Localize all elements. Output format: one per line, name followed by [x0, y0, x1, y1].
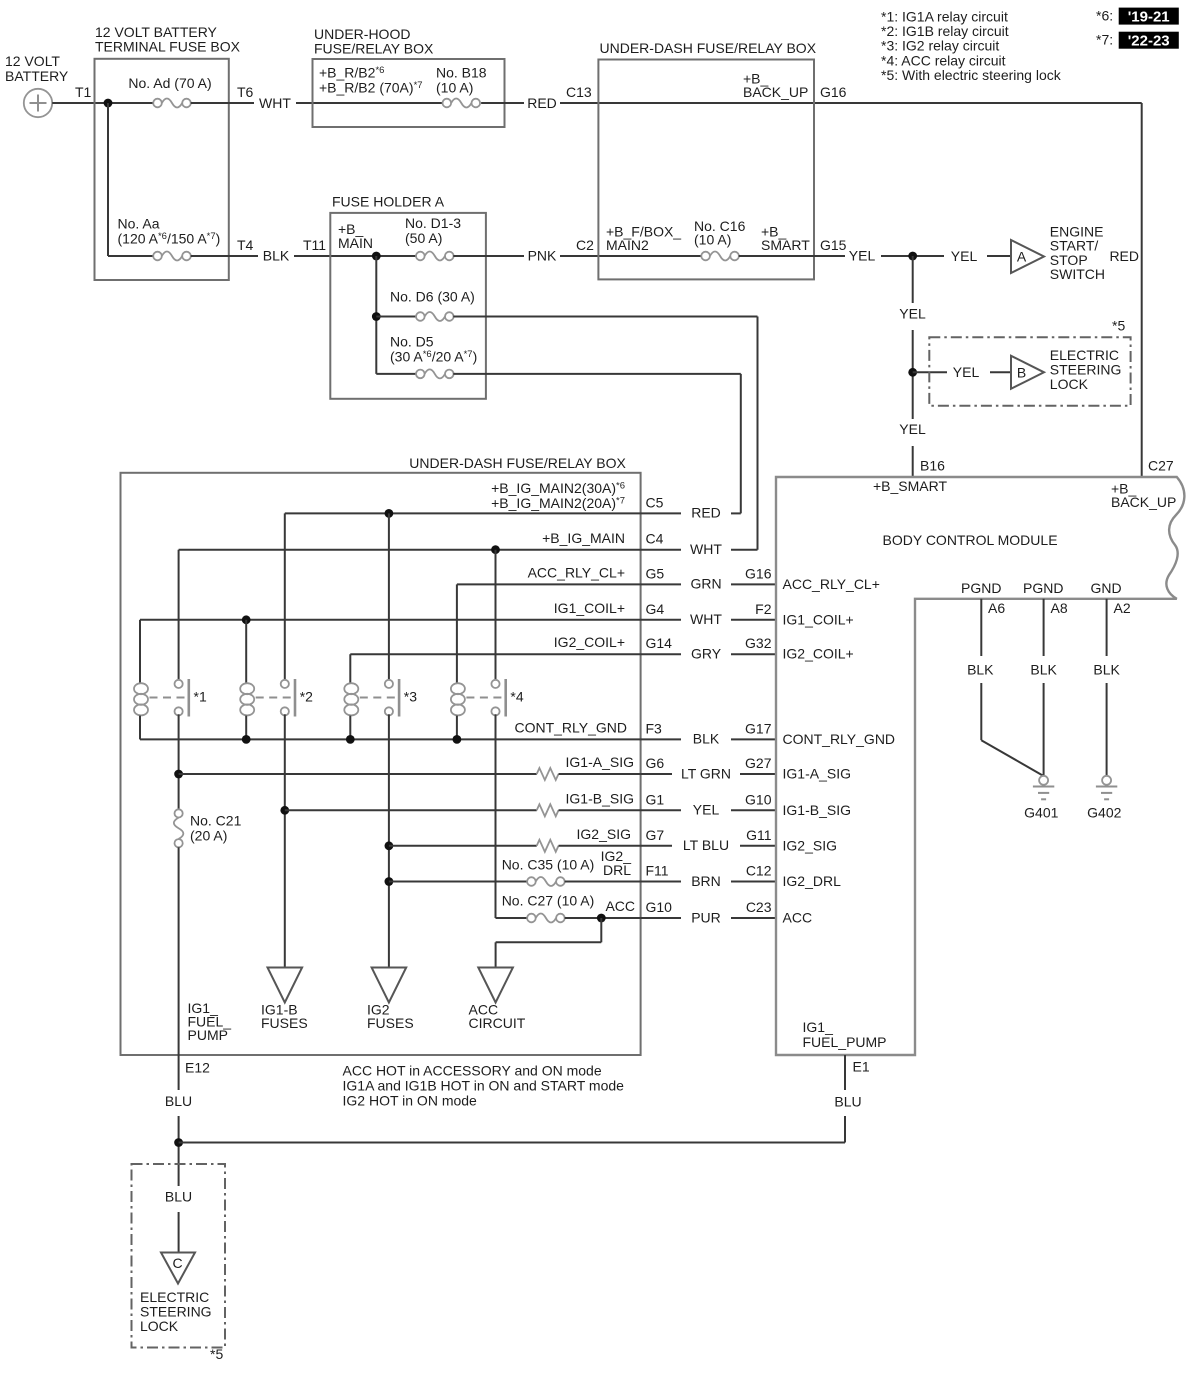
wire row G5 ACC_RLY_CL+ GRN — [457, 564, 880, 592]
svg-text:G401: G401 — [1024, 805, 1058, 821]
svg-text:ACC: ACC — [605, 898, 635, 914]
svg-text:T4: T4 — [237, 237, 254, 253]
svg-text:(20 A): (20 A) — [190, 828, 227, 844]
svg-text:GND: GND — [1091, 580, 1122, 596]
svg-text:CIRCUIT: CIRCUIT — [469, 1015, 526, 1031]
svg-text:G15: G15 — [820, 237, 847, 253]
svg-text:C4: C4 — [646, 531, 664, 547]
wire relay2 coil feed — [245, 620, 247, 683]
svg-text:YEL: YEL — [899, 306, 926, 322]
ground G401 — [1024, 776, 1058, 821]
svg-text:LOCK: LOCK — [1050, 376, 1089, 392]
junction C35 feed tap — [385, 877, 394, 886]
svg-text:No. C21: No. C21 — [190, 813, 242, 829]
svg-text:GRY: GRY — [691, 646, 722, 662]
junction +B_MAIN — [372, 252, 381, 261]
svg-text:BRN: BRN — [691, 873, 721, 889]
svg-text:BLU: BLU — [165, 1093, 192, 1109]
svg-text:G14: G14 — [646, 635, 673, 651]
svg-text:E12: E12 — [185, 1060, 210, 1076]
note *7 year tag — [1096, 32, 1179, 50]
svg-text:F11: F11 — [646, 863, 669, 879]
svg-text:SMART: SMART — [761, 237, 810, 253]
wire row G4 IG1_COIL+ WHT — [140, 600, 854, 628]
wire G15 YEL — [739, 247, 1011, 264]
pin A8 wire BLK — [1030, 599, 1067, 776]
svg-text:DRL: DRL — [603, 862, 631, 878]
junction D6 tap — [372, 312, 381, 321]
svg-text:BACK_UP: BACK_UP — [743, 84, 808, 100]
svg-text:A6: A6 — [988, 600, 1005, 616]
wire RED vertical — [1109, 103, 1141, 477]
junction C5 to relay 3 — [385, 509, 394, 518]
svg-text:C27: C27 — [1148, 458, 1174, 474]
svg-text:*3: *3 — [404, 689, 417, 705]
svg-text:(10 A): (10 A) — [694, 232, 731, 248]
svg-text:*1: *1 — [194, 689, 207, 705]
note *6 year tag — [1096, 8, 1179, 26]
svg-text:G1: G1 — [646, 791, 665, 807]
fuse No. C16 (10 A) — [694, 218, 746, 261]
svg-text:IG2_COIL+: IG2_COIL+ — [554, 634, 625, 650]
wire fuse holder vertical — [375, 256, 377, 374]
svg-text:BLU: BLU — [834, 1094, 861, 1110]
fuse No. Aa — [118, 216, 221, 261]
label IG1_FUEL_PUMP (box) — [188, 1000, 232, 1043]
svg-text:IG2_COIL+: IG2_COIL+ — [783, 646, 854, 662]
under-dash fuse/relay box (main) — [121, 455, 641, 1055]
junction steering lock branch — [908, 368, 917, 377]
wire T4 BLK — [191, 237, 416, 263]
label +B_SMART — [761, 224, 810, 254]
labels PGND PGND GND — [961, 580, 1122, 596]
svg-text:PNK: PNK — [528, 247, 557, 263]
wire relay3 contact feed — [388, 513, 390, 680]
svg-text:LT BLU: LT BLU — [683, 837, 729, 853]
svg-text:G10: G10 — [646, 899, 673, 915]
svg-text:C12: C12 — [746, 863, 772, 879]
wire relay1 contact output — [178, 714, 180, 809]
svg-text:G5: G5 — [646, 565, 665, 581]
wire row G7 IG2_SIG LT BLU — [389, 826, 837, 854]
wire battery down-branch — [108, 103, 153, 256]
svg-text:A: A — [1017, 249, 1027, 265]
svg-text:G10: G10 — [745, 791, 772, 807]
wire RED to C13 — [481, 84, 1142, 111]
svg-text:F3: F3 — [646, 720, 663, 736]
svg-text:IG2_SIG: IG2_SIG — [783, 837, 837, 853]
svg-text:'19-21: '19-21 — [1128, 8, 1170, 25]
svg-text:No. C27 (10 A): No. C27 (10 A) — [502, 893, 595, 909]
fuse No. D5 — [376, 334, 477, 379]
wire row C5 +B_IG_MAIN2 RED — [285, 480, 741, 521]
junction IG2_SIG tap — [385, 841, 394, 850]
svg-text:+B_R/B2*6: +B_R/B2*6 — [319, 65, 384, 81]
wire row C4 +B_IG_MAIN WHT — [179, 530, 758, 557]
svg-text:A8: A8 — [1051, 600, 1068, 616]
svg-text:GRN: GRN — [690, 576, 721, 592]
wire relay coil grounds — [140, 716, 457, 740]
svg-text:CONT_RLY_GND: CONT_RLY_GND — [514, 719, 627, 735]
svg-text:G17: G17 — [745, 720, 772, 736]
wire row G14 IG2_COIL+ GRY — [350, 634, 853, 662]
svg-text:RED: RED — [527, 95, 557, 111]
svg-text:B16: B16 — [920, 458, 945, 474]
arrow ACC CIRCUIT — [469, 968, 526, 1032]
svg-text:T6: T6 — [237, 84, 254, 100]
svg-text:No. Ad (70 A): No. Ad (70 A) — [128, 75, 211, 91]
svg-text:'22-23: '22-23 — [1128, 32, 1170, 49]
junction battery feed — [104, 99, 113, 108]
wire relay4 contact feed — [495, 550, 497, 681]
svg-text:(10 A): (10 A) — [436, 80, 473, 96]
svg-text:No. D6 (30 A): No. D6 (30 A) — [390, 289, 475, 305]
svg-text:BLU: BLU — [165, 1189, 192, 1205]
svg-text:FUSE/RELAY BOX: FUSE/RELAY BOX — [314, 41, 434, 57]
wire row G6 IG1-A_SIG LT GRN — [179, 754, 851, 782]
junction coil4 gnd — [453, 735, 462, 744]
svg-text:WHT: WHT — [259, 95, 291, 111]
svg-text:IG1_COIL+: IG1_COIL+ — [554, 600, 625, 616]
svg-text:YEL: YEL — [849, 247, 876, 263]
relay *3 — [344, 679, 417, 717]
wire YEL vertical — [899, 256, 926, 477]
svg-text:FUSE HOLDER A: FUSE HOLDER A — [332, 194, 445, 210]
svg-text:WHT: WHT — [690, 611, 722, 627]
wire E1 BLU — [834, 1055, 861, 1143]
svg-text:*2: *2 — [300, 689, 313, 705]
svg-text:TERMINAL FUSE BOX: TERMINAL FUSE BOX — [95, 39, 241, 55]
svg-text:G402: G402 — [1087, 805, 1121, 821]
svg-text:RED: RED — [691, 505, 721, 521]
electric steering lock box bottom (dash-dot) — [132, 1164, 226, 1362]
svg-text:RED: RED — [1109, 248, 1139, 264]
wire battery to fuse box — [52, 102, 153, 104]
svg-text:PUR: PUR — [691, 909, 721, 925]
svg-text:IG1_COIL+: IG1_COIL+ — [783, 611, 854, 627]
node B16 +B_SMART — [873, 458, 947, 494]
svg-text:BLK: BLK — [967, 661, 994, 677]
wire relay4 contact output — [496, 714, 528, 918]
svg-text:ACC: ACC — [783, 909, 813, 925]
svg-text:PUMP: PUMP — [188, 1027, 228, 1043]
arrow IG2 FUSES — [367, 968, 414, 1032]
fuse No. D6 (30 A) — [376, 289, 475, 322]
svg-text:ACC_RLY_CL+: ACC_RLY_CL+ — [528, 564, 625, 580]
label +B_R/B2 — [319, 65, 423, 96]
svg-text:E1: E1 — [853, 1059, 870, 1075]
svg-text:BLK: BLK — [1093, 661, 1120, 677]
body control module outline — [776, 477, 1184, 1055]
svg-text:G16: G16 — [745, 565, 772, 581]
svg-text:C23: C23 — [746, 899, 772, 915]
relay *4 — [451, 679, 524, 717]
svg-text:IG1A and IG1B HOT in ON and ST: IG1A and IG1B HOT in ON and START mode — [343, 1078, 625, 1094]
svg-text:ACC_RLY_CL+: ACC_RLY_CL+ — [783, 576, 880, 592]
svg-text:CONT_RLY_GND: CONT_RLY_GND — [783, 731, 896, 747]
notes *1-*5 — [881, 8, 1062, 83]
svg-text:MAIN2: MAIN2 — [606, 237, 649, 253]
svg-text:*4: *4 — [510, 689, 523, 705]
svg-text:YEL: YEL — [899, 421, 926, 437]
fuse No. Ad (70 A) — [128, 75, 211, 108]
wire D6 to C4 — [453, 317, 757, 550]
svg-text:G27: G27 — [745, 755, 772, 771]
wire relay2 contact feed — [284, 513, 286, 680]
svg-text:*4: ACC relay circuit: *4: ACC relay circuit — [881, 52, 1006, 68]
svg-text:No. D1-3: No. D1-3 — [405, 215, 461, 231]
12 volt battery terminal fuse box — [95, 24, 241, 280]
label +B_MAIN — [338, 221, 373, 251]
footnote modes — [343, 1063, 625, 1109]
junction coil3 gnd — [346, 735, 355, 744]
svg-text:UNDER-DASH FUSE/RELAY BOX: UNDER-DASH FUSE/RELAY BOX — [600, 40, 817, 56]
svg-text:C2: C2 — [576, 237, 594, 253]
label IG1_FUEL_PUMP (bcm) — [803, 1019, 887, 1050]
svg-text:*2: IG1B relay circuit: *2: IG1B relay circuit — [881, 23, 1009, 39]
wire fuse C21 to E12 — [178, 847, 180, 1055]
svg-text:F2: F2 — [755, 601, 772, 617]
junction YEL branch — [908, 252, 917, 261]
label +B_F/BOX_MAIN2 — [606, 224, 681, 254]
wire PNK to C2 — [453, 237, 701, 263]
svg-text:*5: *5 — [210, 1346, 223, 1362]
svg-text:BACK_UP: BACK_UP — [1111, 494, 1176, 510]
svg-text:C13: C13 — [566, 84, 592, 100]
svg-text:(30 A*6/20 A*7): (30 A*6/20 A*7) — [390, 349, 477, 365]
svg-text:MAIN: MAIN — [338, 235, 373, 251]
connector A engine start/stop switch — [1011, 223, 1105, 282]
fuse No. D1-3 (50 A) — [405, 215, 461, 261]
svg-text:WHT: WHT — [690, 541, 722, 557]
wire relay3 contact output — [388, 714, 390, 967]
svg-text:IG1-A_SIG: IG1-A_SIG — [783, 766, 851, 782]
svg-text:No. C35 (10 A): No. C35 (10 A) — [502, 857, 595, 873]
svg-text:LOCK: LOCK — [140, 1318, 179, 1334]
svg-text:+B_SMART: +B_SMART — [873, 478, 947, 494]
svg-text:+B_IG_MAIN: +B_IG_MAIN — [542, 530, 625, 546]
fuse No. B18 (10 A) — [436, 65, 487, 108]
junction C4 to relay 4 — [491, 545, 500, 554]
relay *2 — [240, 679, 313, 717]
svg-text:BLK: BLK — [263, 247, 290, 263]
svg-text:IG2_DRL: IG2_DRL — [783, 873, 842, 889]
wire relay1 contact feed — [178, 550, 180, 681]
svg-text:BLK: BLK — [693, 731, 720, 747]
svg-text:G11: G11 — [746, 827, 772, 843]
svg-text:No. D5: No. D5 — [390, 334, 434, 350]
wire fuel pump bus — [179, 1142, 845, 1144]
svg-text:No. B18: No. B18 — [436, 65, 487, 81]
svg-text:UNDER-DASH FUSE/RELAY BOX: UNDER-DASH FUSE/RELAY BOX — [409, 455, 626, 471]
svg-text:YEL: YEL — [693, 802, 720, 818]
svg-text:G4: G4 — [646, 601, 665, 617]
fuse No. C21 (20 A) vertical — [174, 809, 242, 847]
svg-text:IG2_SIG: IG2_SIG — [577, 826, 631, 842]
svg-text:T1: T1 — [75, 84, 92, 100]
under-hood fuse/relay box — [313, 26, 505, 127]
junction G4 to relay 2 coil — [242, 615, 251, 624]
arrow IG1-B FUSES — [261, 968, 308, 1032]
label +B_BACK_UP — [743, 71, 808, 101]
svg-text:ACC HOT in ACCESSORY and ON mo: ACC HOT in ACCESSORY and ON mode — [343, 1063, 602, 1079]
svg-text:*6:: *6: — [1096, 8, 1113, 24]
svg-text:SWITCH: SWITCH — [1050, 266, 1105, 282]
svg-text:BODY CONTROL MODULE: BODY CONTROL MODULE — [883, 532, 1058, 548]
svg-text:G6: G6 — [646, 755, 665, 771]
svg-text:IG2 HOT in ON mode: IG2 HOT in ON mode — [343, 1093, 478, 1109]
wire relay1 coil feed — [139, 620, 141, 683]
svg-text:*3: IG2 relay circuit: *3: IG2 relay circuit — [881, 38, 999, 54]
svg-text:T11: T11 — [303, 237, 326, 253]
wire row F3 CONT_RLY_GND BLK — [140, 719, 895, 747]
svg-text:*1: IG1A relay circuit: *1: IG1A relay circuit — [881, 8, 1008, 24]
svg-text:IG1_: IG1_ — [803, 1019, 834, 1035]
wire relay2 contact output — [284, 714, 286, 967]
fuse No. C27 (10 A) row G10 ACC PUR — [502, 893, 812, 926]
connector C electric steering lock — [140, 1253, 212, 1335]
wire relay4 coil feed — [456, 584, 458, 683]
pin A6 wire BLK — [967, 599, 1044, 776]
junction ACC branch — [597, 914, 606, 923]
svg-text:+B_R/B2 (70A)*7: +B_R/B2 (70A)*7 — [319, 80, 423, 96]
fuse holder A box — [330, 194, 486, 399]
svg-text:+B_IG_MAIN2(30A)*6: +B_IG_MAIN2(30A)*6 — [491, 480, 625, 496]
svg-text:B: B — [1017, 364, 1026, 380]
svg-text:YEL: YEL — [953, 364, 980, 380]
wire D5 to C5 — [453, 374, 741, 514]
wire relay3 coil feed — [349, 654, 351, 683]
fuse No. C35 (10 A) row F11 IG2_DRL BRN — [389, 848, 841, 889]
connector B electric steering lock — [1011, 347, 1121, 392]
wire E12 BLU — [165, 1055, 192, 1253]
wire row G1 IG1-B_SIG YEL — [285, 790, 851, 818]
svg-text:BLK: BLK — [1030, 661, 1057, 677]
svg-text:A2: A2 — [1114, 600, 1131, 616]
svg-text:IG1-A_SIG: IG1-A_SIG — [566, 754, 634, 770]
svg-text:+B_IG_MAIN2(20A)*7: +B_IG_MAIN2(20A)*7 — [491, 495, 625, 511]
junction E12/E1 bus — [174, 1138, 183, 1147]
svg-text:IG1-B_SIG: IG1-B_SIG — [566, 790, 634, 806]
node C27 +B_BACK_UP — [1111, 458, 1176, 510]
svg-text:C: C — [172, 1255, 182, 1271]
svg-text:No. Aa: No. Aa — [118, 216, 160, 232]
svg-text:G7: G7 — [646, 827, 665, 843]
svg-text:*7:: *7: — [1096, 32, 1113, 48]
svg-text:FUSES: FUSES — [367, 1015, 414, 1031]
svg-text:G32: G32 — [745, 635, 772, 651]
svg-text:PGND: PGND — [961, 580, 1001, 596]
svg-text:LT GRN: LT GRN — [681, 765, 731, 781]
relay *1 — [134, 679, 207, 717]
svg-text:(50 A): (50 A) — [405, 230, 442, 246]
junction coil2 gnd — [242, 735, 251, 744]
svg-text:(120 A*6/150 A*7): (120 A*6/150 A*7) — [118, 231, 221, 247]
wire YEL to steering lock — [913, 364, 1011, 380]
svg-text:FUSES: FUSES — [261, 1015, 308, 1031]
junction IG1-B_SIG tap — [280, 806, 289, 815]
ground G402 — [1087, 776, 1121, 821]
svg-text:YEL: YEL — [951, 248, 978, 264]
svg-text:*5: *5 — [1112, 318, 1125, 334]
svg-text:PGND: PGND — [1023, 580, 1063, 596]
junction IG1-A_SIG tap — [174, 770, 183, 779]
battery 12V source — [5, 53, 69, 117]
under-dash fuse/relay box (top) — [598, 40, 816, 279]
svg-text:G16: G16 — [820, 84, 847, 100]
electric steering lock box (dash-dot) — [929, 318, 1130, 406]
svg-text:IG1-B_SIG: IG1-B_SIG — [783, 802, 851, 818]
wire ACC circuit loop — [496, 918, 602, 968]
wire T6 WHT — [191, 84, 443, 111]
svg-text:BATTERY: BATTERY — [5, 68, 69, 84]
svg-text:FUEL_PUMP: FUEL_PUMP — [803, 1034, 887, 1050]
svg-text:12 VOLT: 12 VOLT — [5, 53, 60, 69]
svg-text:*5: With electric steering loc: *5: With electric steering lock — [881, 67, 1062, 83]
svg-text:C5: C5 — [646, 495, 664, 511]
pin A2 wire BLK — [1093, 599, 1130, 776]
